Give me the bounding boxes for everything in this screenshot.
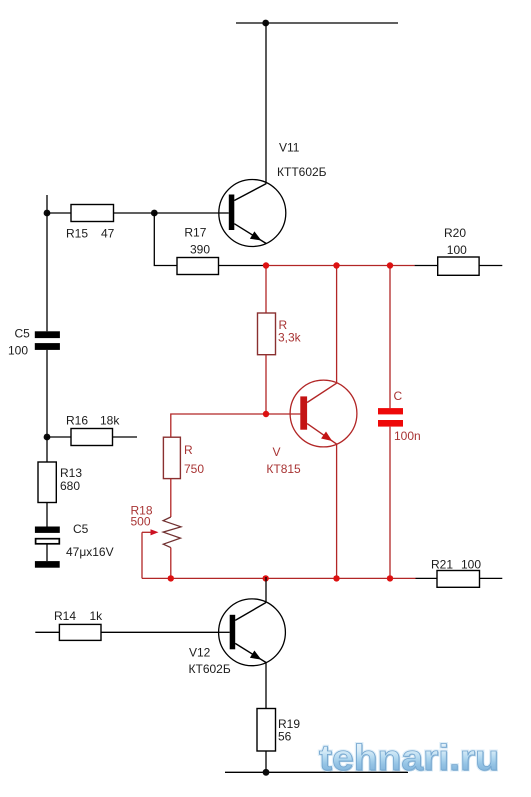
wire: top supply rail xyxy=(236,22,398,24)
wire: R14 to V12 base xyxy=(101,631,219,633)
wire: red top bus xyxy=(264,265,415,267)
resistor R20 xyxy=(438,257,479,275)
svg-text:C5: C5 xyxy=(15,327,31,341)
wire: R750 to rheostat R18 xyxy=(170,479,172,517)
wire: bottom rail xyxy=(225,771,408,773)
wire: R 3,3k to base node xyxy=(265,355,267,414)
resistor R19 xyxy=(257,709,276,752)
wire: lead to R21 xyxy=(416,577,438,579)
svg-text:100: 100 xyxy=(8,344,28,358)
node: top bus at V11 xyxy=(263,262,269,268)
wire: C5 to R16 node xyxy=(46,350,48,437)
wire: R19 to bottom rail xyxy=(265,751,267,772)
svg-text:500: 500 xyxy=(131,515,151,529)
svg-text:V12: V12 xyxy=(189,646,211,660)
wire: R16 right stub xyxy=(113,436,138,438)
wire: drop from node to R17 xyxy=(154,213,177,266)
wire: R18 bottom to bus xyxy=(170,548,172,579)
transistor V11 xyxy=(219,180,286,247)
svg-text:V11: V11 xyxy=(279,141,300,155)
wire: R20 right lead xyxy=(479,265,502,267)
svg-text:R20: R20 xyxy=(444,226,466,240)
wire: R13 to capacitor C5 electrolytic xyxy=(46,503,48,527)
wire: R14 left lead xyxy=(35,631,59,633)
node: bottom bus at C xyxy=(387,575,393,581)
resistor R 750 xyxy=(163,437,180,478)
svg-text:R17: R17 xyxy=(184,226,206,240)
resistor R21 xyxy=(437,571,480,588)
svg-text:КТ602Б: КТ602Б xyxy=(189,662,231,676)
svg-text:R16: R16 xyxy=(66,414,88,428)
svg-text:V: V xyxy=(273,445,281,459)
node: top rail junction xyxy=(262,20,269,27)
svg-text:C5: C5 xyxy=(73,522,89,536)
node: R16/R13 junction xyxy=(44,434,51,441)
wire: red bottom bus xyxy=(142,577,416,579)
wire: V emitter down to bus xyxy=(336,444,338,578)
wire: node to V11 base xyxy=(154,212,219,214)
svg-text:100: 100 xyxy=(461,558,481,572)
svg-text:100n: 100n xyxy=(394,429,421,443)
svg-text:47μx16V: 47μx16V xyxy=(66,545,114,559)
svg-text:18k: 18k xyxy=(100,414,120,428)
watermark tehnari.ru xyxy=(319,737,500,779)
wire: node down to capacitor C5 xyxy=(46,213,48,331)
node: bottom bus at V12 collector xyxy=(263,575,269,581)
svg-text:R15: R15 xyxy=(66,227,88,241)
svg-text:1k: 1k xyxy=(90,609,104,623)
R18 wiper arrow xyxy=(142,531,152,533)
svg-text:R13: R13 xyxy=(60,466,82,480)
node: top bus at C xyxy=(387,262,393,268)
resistor R 3,3k xyxy=(258,313,276,355)
svg-text:R: R xyxy=(184,443,193,457)
wire: R21 right lead xyxy=(480,577,503,579)
transistor V KT815 xyxy=(290,380,357,447)
node: R15 / left column junction xyxy=(44,210,51,217)
wire: stub above R15 node xyxy=(46,195,48,213)
resistor R14 xyxy=(59,624,101,640)
wire: R750 top / base node / V base bus xyxy=(171,414,301,437)
svg-text:R21: R21 xyxy=(431,558,453,572)
node: bottom bus at R18 xyxy=(168,575,174,581)
svg-text:R14: R14 xyxy=(54,609,76,623)
wire: V collector up to bus xyxy=(336,266,338,384)
svg-text:tehnari.ru: tehnari.ru xyxy=(319,737,499,778)
svg-text:47: 47 xyxy=(101,227,115,241)
svg-text:КТ815: КТ815 xyxy=(266,462,301,476)
wire: capacitor C to bottom bus xyxy=(389,427,391,579)
capacitor C5 electrolytic (47ux16V) xyxy=(35,527,60,544)
node: top bus at V collector xyxy=(333,262,339,268)
capacitor C5 (100) xyxy=(35,331,60,350)
wire: R15 to base node xyxy=(114,212,155,214)
svg-text:КТТ602Б: КТТ602Б xyxy=(277,165,327,179)
resistor R17 xyxy=(177,258,219,275)
wire: C5 to end bar xyxy=(46,544,48,561)
wire: V12 collector up to red bus xyxy=(265,577,267,603)
resistor R13 xyxy=(38,462,56,503)
ground bar xyxy=(35,561,60,568)
resistor R15 xyxy=(71,205,114,222)
node: base junction xyxy=(263,411,269,417)
svg-text:680: 680 xyxy=(60,479,80,493)
wire: R17 to collector bus node xyxy=(219,265,264,267)
rheostat R18 zigzag xyxy=(163,517,181,548)
wire: bus down to capacitor C xyxy=(389,266,391,409)
capacitor C (100n) xyxy=(378,408,403,427)
node: bottom bus at V emitter xyxy=(333,575,339,581)
wire: lead to R20 xyxy=(415,265,438,267)
svg-text:750: 750 xyxy=(184,462,204,476)
wire: V11 collector to top rail xyxy=(265,23,267,184)
wire: node to R16 xyxy=(47,436,71,438)
svg-text:56: 56 xyxy=(278,730,292,744)
svg-text:100: 100 xyxy=(447,243,467,257)
wire: bus down to resistor R 3.3k xyxy=(265,266,267,314)
wire: wiper down to bottom bus xyxy=(141,532,143,578)
transistor V12 xyxy=(219,599,286,666)
wire: node to R15 xyxy=(47,212,71,214)
node: bottom rail junction xyxy=(263,769,270,776)
svg-text:C: C xyxy=(394,389,403,403)
resistor R16 xyxy=(71,429,113,446)
node: R15/R17/base junction xyxy=(151,210,158,217)
svg-text:390: 390 xyxy=(190,243,210,257)
svg-text:3,3k: 3,3k xyxy=(278,331,302,345)
wire: V12 emitter down to R19 xyxy=(265,663,267,709)
wire: node to R13 xyxy=(46,437,48,462)
